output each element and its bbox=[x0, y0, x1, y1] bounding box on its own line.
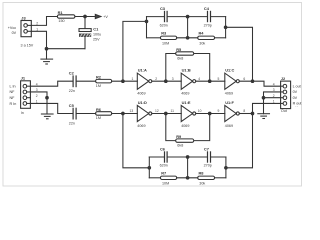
svg-text:3 a 15V: 3 a 15V bbox=[21, 43, 34, 47]
wire 0V rail bbox=[47, 48, 86, 50]
wire C3 to C4 bbox=[167, 16, 207, 18]
wire U1:E out to U1:F in bbox=[196, 113, 225, 115]
wire top feedback right bracket bbox=[225, 17, 227, 38]
wire C7 to right bracket bbox=[211, 156, 226, 158]
svg-text:Out: Out bbox=[281, 109, 287, 113]
resistor R7 bbox=[160, 176, 176, 179]
svg-text:+Vcc: +Vcc bbox=[8, 26, 16, 30]
svg-text:8: 8 bbox=[243, 109, 245, 113]
wire U1:D out to U1:E in bbox=[152, 113, 181, 115]
svg-text:C1: C1 bbox=[93, 26, 99, 31]
svg-text:10: 10 bbox=[198, 109, 202, 113]
svg-text:150: 150 bbox=[58, 19, 64, 23]
node bottom left bracket bbox=[148, 167, 151, 170]
svg-text:4069: 4069 bbox=[137, 92, 145, 96]
wire bottom feedback left column bbox=[123, 114, 149, 168]
capacitor C3 bbox=[165, 11, 168, 21]
wire top resistor row left bbox=[147, 37, 161, 39]
wire bottom feedback right column bbox=[226, 114, 253, 168]
connector J3 bbox=[21, 21, 31, 37]
svg-text:30k: 30k bbox=[199, 182, 205, 186]
svg-text:22n: 22n bbox=[69, 122, 75, 126]
resistor R5 bridge bbox=[166, 52, 210, 81]
wire J1 pin3 to pin2 junction bbox=[30, 92, 47, 98]
svg-text:L out: L out bbox=[293, 84, 301, 88]
wire C1 to 0V rail bbox=[84, 37, 86, 49]
capacitor C2 bbox=[73, 76, 76, 87]
wire J1 pin1 to C5 bbox=[30, 103, 72, 113]
svg-text:R7: R7 bbox=[161, 171, 166, 176]
connector J2 bbox=[281, 81, 291, 109]
svg-text:4: 4 bbox=[198, 77, 200, 81]
svg-text:3: 3 bbox=[172, 77, 174, 81]
wire R1 to +V flag bbox=[75, 16, 95, 18]
resistor R4 bbox=[198, 36, 215, 39]
svg-text:30k: 30k bbox=[199, 42, 205, 46]
wire top feedback left column bbox=[123, 21, 147, 81]
node top mid rail bbox=[186, 15, 189, 18]
op-amp U1:F (inverter) bbox=[225, 105, 240, 121]
capacitor C5 bbox=[73, 108, 76, 119]
wire R3 to R4 bbox=[177, 37, 198, 39]
svg-text:U1:F: U1:F bbox=[225, 100, 234, 105]
wire C2 to R2 bbox=[76, 80, 96, 82]
capacitor C6 bbox=[165, 152, 168, 162]
svg-text:4069: 4069 bbox=[181, 124, 189, 128]
wire U1:F node to J2 pin1 bbox=[253, 103, 281, 113]
svg-text:R In: R In bbox=[10, 102, 17, 106]
svg-text:NF: NF bbox=[10, 90, 16, 94]
svg-text:4069: 4069 bbox=[137, 124, 145, 128]
svg-text:U1:A: U1:A bbox=[138, 68, 147, 73]
svg-text:2: 2 bbox=[36, 21, 38, 25]
wire U1:F out to node bbox=[239, 113, 252, 115]
svg-text:25V: 25V bbox=[93, 37, 100, 41]
page border frame bbox=[3, 3, 302, 187]
svg-text:R1: R1 bbox=[58, 10, 64, 15]
node 0V rail junction bbox=[45, 47, 48, 50]
wire bottom mid column bbox=[187, 157, 189, 178]
svg-text:C5: C5 bbox=[69, 103, 75, 108]
svg-text:2: 2 bbox=[155, 77, 157, 81]
ground (J1) bbox=[41, 114, 53, 119]
op-amp U1:C (inverter) bbox=[225, 73, 240, 89]
wire top feedback right column bbox=[226, 27, 253, 81]
node U1:D output bbox=[165, 112, 168, 115]
svg-text:6k8: 6k8 bbox=[177, 56, 183, 60]
svg-text:4069: 4069 bbox=[181, 92, 189, 96]
wire U1:C out to J2 pin4 bbox=[239, 81, 280, 86]
wire R7 to R8 bbox=[177, 177, 198, 179]
svg-text:1M: 1M bbox=[96, 84, 101, 88]
wire U1:A out to U1:B in bbox=[152, 80, 181, 82]
svg-text:270p: 270p bbox=[204, 164, 212, 168]
svg-text:5: 5 bbox=[218, 77, 220, 81]
wire J2 pin2 to junction bbox=[264, 97, 281, 99]
svg-text:11: 11 bbox=[171, 109, 175, 113]
op-amp U1:D (inverter) bbox=[137, 105, 152, 121]
node J1 ground junction bbox=[46, 96, 49, 99]
resistor R8 bbox=[198, 176, 215, 179]
svg-text:4069: 4069 bbox=[225, 92, 233, 96]
node top mid resistor row bbox=[186, 37, 189, 40]
node U1:D input bbox=[122, 112, 125, 115]
wire R2 to U1:A input bbox=[112, 80, 138, 82]
node bottom mid rail bbox=[186, 156, 189, 159]
node U1:A output bbox=[165, 80, 168, 83]
capacitor C7 bbox=[208, 152, 211, 162]
wire R4 to right bracket bbox=[215, 37, 226, 39]
node top left bracket bbox=[145, 20, 148, 23]
svg-text:C3: C3 bbox=[160, 6, 166, 11]
svg-text:12: 12 bbox=[155, 109, 159, 113]
svg-text:C2: C2 bbox=[69, 70, 75, 75]
svg-text:0V: 0V bbox=[293, 96, 298, 100]
resistor R3 bbox=[160, 36, 176, 39]
svg-text:R6: R6 bbox=[96, 107, 102, 112]
power flag +V bbox=[95, 14, 101, 18]
svg-text:1M: 1M bbox=[96, 116, 101, 120]
svg-text:22n: 22n bbox=[69, 89, 75, 93]
resistor R9 bridge bbox=[166, 114, 210, 143]
op-amp U1:B (inverter) bbox=[181, 73, 196, 89]
svg-text:4: 4 bbox=[273, 82, 275, 86]
wire C4 to right bracket bbox=[211, 16, 226, 18]
svg-text:620n: 620n bbox=[160, 23, 168, 27]
svg-text:R4: R4 bbox=[199, 31, 205, 36]
svg-text:270p: 270p bbox=[204, 23, 212, 27]
wire J3 pin2 to R1 bbox=[31, 17, 57, 26]
wire junction to ground bbox=[263, 98, 265, 114]
svg-text:U1:C: U1:C bbox=[225, 68, 234, 73]
svg-text:4069: 4069 bbox=[225, 124, 233, 128]
wire node to C1 bbox=[84, 17, 86, 29]
svg-text:2: 2 bbox=[36, 94, 38, 98]
svg-text:0V: 0V bbox=[293, 90, 298, 94]
svg-text:1: 1 bbox=[273, 100, 275, 104]
resistor R1 bbox=[57, 15, 75, 18]
node top right bracket bbox=[224, 26, 227, 29]
wire bottom feedback left bracket bbox=[148, 157, 150, 178]
wire R8 to right bracket bbox=[215, 177, 226, 179]
svg-text:- -: - - bbox=[295, 105, 298, 109]
wire J3 pin1 to 0V rail bbox=[31, 31, 46, 48]
svg-text:U1:D: U1:D bbox=[138, 100, 147, 105]
node bottom mid resistor row bbox=[186, 177, 189, 180]
connector J1 bbox=[21, 81, 31, 109]
svg-text:6k8: 6k8 bbox=[177, 144, 183, 148]
svg-text:0V: 0V bbox=[12, 31, 17, 35]
node U1:E output bbox=[208, 112, 211, 115]
node U1:A input bbox=[122, 80, 125, 83]
svg-text:In: In bbox=[21, 111, 24, 115]
capacitor C1 (electrolytic) bbox=[79, 29, 91, 37]
svg-text:10M: 10M bbox=[162, 182, 169, 186]
wire junction to ground bbox=[46, 98, 48, 114]
ground (J2) bbox=[258, 114, 270, 119]
wire C5 to R6 bbox=[76, 113, 96, 115]
svg-text:R5: R5 bbox=[176, 47, 182, 52]
node U1:F output bbox=[251, 112, 254, 115]
svg-text:620n: 620n bbox=[160, 164, 168, 168]
node R1/C1 junction bbox=[84, 15, 87, 18]
op-amp U1:E (inverter) bbox=[181, 105, 196, 121]
svg-text:9: 9 bbox=[218, 109, 220, 113]
resistor R2 bbox=[96, 79, 112, 83]
svg-text:13: 13 bbox=[130, 109, 134, 113]
capacitor C4 bbox=[208, 11, 211, 21]
svg-text:R8: R8 bbox=[199, 171, 205, 176]
wire bottom capacitor rail bbox=[149, 156, 164, 158]
wire top mid column bbox=[187, 17, 189, 38]
svg-text:L In: L In bbox=[10, 85, 16, 89]
wire top capacitor rail bbox=[147, 16, 165, 18]
svg-text:NF: NF bbox=[10, 96, 16, 100]
svg-text:C6: C6 bbox=[160, 147, 166, 152]
node bottom right bracket bbox=[225, 167, 228, 170]
wire U1:B out to U1:C in bbox=[196, 80, 225, 82]
svg-text:100u: 100u bbox=[93, 32, 101, 36]
svg-text:1: 1 bbox=[36, 27, 38, 31]
node U1:C output bbox=[251, 80, 254, 83]
svg-text:1: 1 bbox=[132, 77, 134, 81]
node U1:B output bbox=[208, 80, 211, 83]
svg-text:R2: R2 bbox=[96, 75, 102, 80]
node J2 ground junction bbox=[262, 96, 265, 99]
wire R6 to U1:D input bbox=[112, 113, 138, 115]
resistor R6 bbox=[96, 112, 112, 116]
svg-text:R3: R3 bbox=[161, 31, 167, 36]
svg-text:C7: C7 bbox=[204, 147, 209, 152]
svg-text:U1:E: U1:E bbox=[182, 100, 191, 105]
svg-text:C4: C4 bbox=[204, 6, 210, 11]
wire J2 pin3 to pin2 junction bbox=[264, 92, 281, 98]
svg-text:R9: R9 bbox=[176, 134, 182, 139]
ground (power section) bbox=[41, 49, 53, 64]
wire top feedback left bracket bbox=[146, 17, 148, 38]
svg-text:10M: 10M bbox=[162, 42, 169, 46]
wire J1 pin4 to C2 bbox=[30, 81, 72, 86]
svg-text:U1:B: U1:B bbox=[182, 68, 191, 73]
wire bottom resistor row left bbox=[149, 177, 160, 179]
op-amp U1:A (inverter) bbox=[137, 73, 152, 89]
svg-text:+V: +V bbox=[103, 15, 108, 19]
wire C6 to C7 bbox=[167, 156, 207, 158]
svg-text:6: 6 bbox=[243, 77, 245, 81]
wire bottom feedback right bracket bbox=[225, 157, 227, 178]
